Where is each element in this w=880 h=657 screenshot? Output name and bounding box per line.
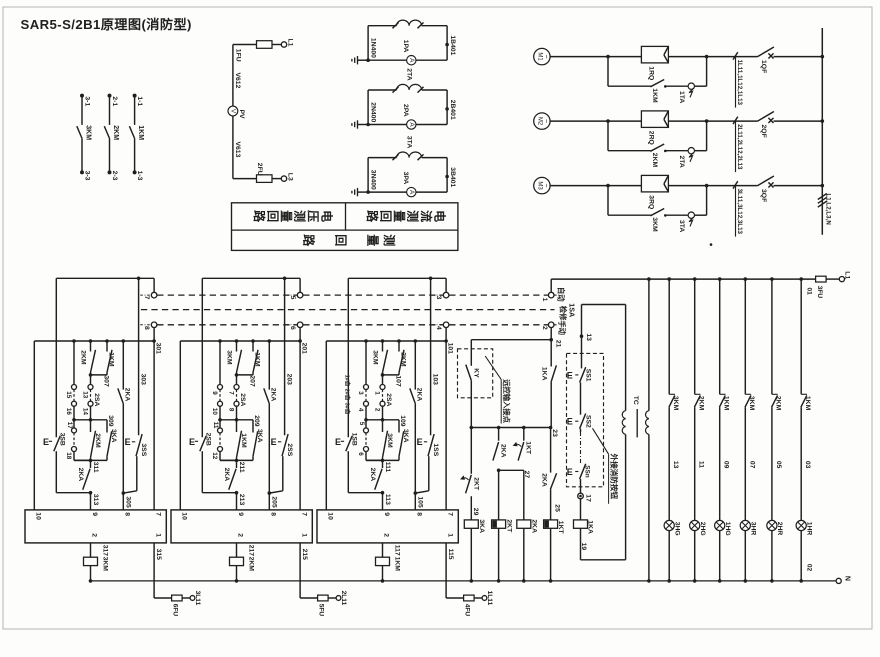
- svg-text:14: 14: [82, 408, 89, 416]
- selector 1SA terminal 1 (auto): [541, 287, 566, 302]
- svg-text:SS1: SS1: [585, 369, 592, 382]
- svg-text:自动: 自动: [557, 287, 566, 302]
- switch 1KM with terminals 1-1/1-3: [129, 94, 144, 181]
- contact 3KM (self-hold): [383, 420, 393, 461]
- svg-text:PV: PV: [238, 110, 245, 120]
- node 13: [580, 305, 626, 342]
- svg-text:3TA: 3TA: [678, 220, 685, 232]
- svg-text:9: 9: [211, 391, 218, 395]
- svg-text:2KM: 2KM: [248, 557, 255, 572]
- switch 2KM with terminals 2-1/2-3: [104, 94, 119, 181]
- svg-text:203: 203: [286, 374, 293, 386]
- svg-text:213: 213: [238, 494, 245, 506]
- svg-text:3KA: 3KA: [478, 519, 485, 533]
- svg-text:15: 15: [65, 391, 72, 399]
- terminal L3: [272, 173, 293, 182]
- label 2TA: [405, 68, 412, 80]
- contact 3KM (interlock): [372, 341, 388, 375]
- svg-text:3KM: 3KM: [102, 557, 109, 572]
- svg-text:E: E: [567, 370, 573, 380]
- wire 201: [300, 328, 307, 355]
- svg-text:313: 313: [92, 494, 99, 506]
- selector 2SA terminals 13/14: [82, 375, 93, 422]
- terminal 3 (selector line): [432, 278, 449, 299]
- transformer TC primary: [622, 305, 625, 560]
- legend table: [232, 203, 458, 251]
- svg-text:02: 02: [806, 564, 813, 572]
- svg-text:压: 压: [306, 210, 320, 222]
- svg-text:3RQ: 3RQ: [647, 195, 654, 209]
- svg-text:2KM: 2KM: [400, 352, 407, 367]
- svg-text:1: 1: [374, 391, 381, 395]
- svg-text:1SA: 1SA: [568, 303, 577, 317]
- current transformer 1TA loop: [368, 20, 449, 60]
- svg-text:测: 测: [382, 234, 397, 246]
- svg-text:E: E: [417, 437, 423, 447]
- svg-text:11: 11: [212, 422, 219, 429]
- terminal 6 (selector line): [286, 322, 303, 330]
- aux contact 3KM (lamp 3HG): [669, 279, 679, 520]
- svg-text:E: E: [335, 437, 341, 447]
- svg-text:17: 17: [585, 494, 592, 502]
- svg-text:2HR: 2HR: [776, 522, 783, 536]
- svg-text:2: 2: [541, 326, 548, 330]
- svg-text:2KT: 2KT: [505, 519, 512, 533]
- svg-text:3KM: 3KM: [672, 396, 679, 411]
- contact 3KA (fire enable): [253, 420, 263, 461]
- terminal 5 (selector line): [286, 278, 303, 299]
- svg-text:2-3: 2-3: [111, 171, 118, 181]
- svg-text:量: 量: [366, 234, 380, 246]
- node 309: [74, 415, 114, 427]
- bypass contactor 3KM: [608, 186, 688, 232]
- wire to pin 7: [445, 341, 447, 510]
- svg-text:2: 2: [374, 408, 381, 412]
- svg-text:1TA: 1TA: [678, 91, 685, 103]
- svg-text:2KA: 2KA: [499, 444, 506, 458]
- svg-text:2RQ: 2RQ: [647, 131, 654, 145]
- current transformer 1TA: [678, 57, 707, 104]
- svg-text:10: 10: [327, 512, 334, 520]
- contactor coil 1KM: [376, 543, 401, 583]
- svg-text:1L11,1L12,1L13: 1L11,1L12,1L13: [736, 60, 743, 106]
- svg-text:2KA: 2KA: [416, 388, 423, 402]
- svg-text:L1: L1: [844, 271, 851, 279]
- contact 2KA (to 1KT coil): [540, 428, 560, 520]
- aux contact 3KM (lamp 3HR): [745, 279, 755, 520]
- wire to pin 10: [33, 341, 35, 510]
- svg-text:2KA: 2KA: [369, 468, 376, 482]
- svg-text:10: 10: [35, 512, 42, 520]
- svg-text:2SA: 2SA: [385, 393, 392, 406]
- svg-text:1RQ: 1RQ: [647, 66, 654, 80]
- svg-text:25: 25: [554, 504, 561, 512]
- svg-text:3KA: 3KA: [110, 429, 117, 443]
- svg-text:7: 7: [446, 512, 453, 516]
- contactor coil 3KM: [84, 543, 109, 583]
- svg-text:3L11,3L12,3L13: 3L11,3L12,3L13: [736, 189, 743, 235]
- svg-text:1: 1: [541, 298, 548, 302]
- svg-text:105: 105: [417, 496, 424, 508]
- wire 13: [672, 461, 679, 469]
- fire button SS1: [567, 336, 592, 415]
- svg-text:外接消防按钮: 外接消防按钮: [609, 454, 619, 500]
- wire 09: [723, 461, 730, 469]
- svg-text:109: 109: [399, 415, 406, 427]
- svg-text:4: 4: [435, 326, 442, 330]
- svg-text:2KA: 2KA: [540, 473, 547, 487]
- wire motor M3 to soft starter: [550, 184, 641, 188]
- remote contact box KY: [458, 340, 493, 428]
- indicator lamp 1HG: [715, 520, 731, 582]
- svg-text:1HR: 1HR: [806, 522, 813, 536]
- svg-text:3N400: 3N400: [369, 170, 376, 190]
- relay coil 1KA: [574, 499, 594, 560]
- svg-text:13: 13: [672, 461, 679, 469]
- contact 2KA (lower): [77, 460, 91, 489]
- svg-text:2KM: 2KM: [651, 153, 658, 168]
- svg-text:8: 8: [228, 408, 235, 412]
- svg-text:307: 307: [102, 375, 109, 387]
- wire 315 / fuse 6FU / terminal 3L11: [154, 543, 201, 616]
- svg-text:2KA: 2KA: [124, 388, 131, 402]
- svg-text:流: 流: [419, 210, 434, 222]
- label external fire button: [593, 428, 620, 504]
- svg-text:1: 1: [154, 533, 161, 537]
- plug terminals 17/18: [65, 420, 90, 461]
- svg-text:2: 2: [383, 533, 390, 537]
- relay coil 1KT: [544, 520, 564, 583]
- svg-text:17: 17: [66, 422, 73, 430]
- wire terminal1 to top rail: [550, 279, 552, 292]
- svg-text:1KM: 1KM: [240, 433, 247, 448]
- plug terminals 5/6: [357, 420, 382, 461]
- node 213: [235, 491, 246, 510]
- svg-text:2KM: 2KM: [80, 350, 87, 365]
- current transformer 3TA: [678, 186, 707, 233]
- svg-text:V612: V612: [234, 73, 241, 89]
- ammeter 2PA: [368, 104, 447, 129]
- node 211: [220, 459, 253, 473]
- wire 301: [154, 328, 161, 355]
- svg-text:1KT: 1KT: [557, 521, 564, 535]
- svg-text:11: 11: [698, 461, 705, 468]
- node 209: [220, 415, 260, 427]
- svg-text:3KM: 3KM: [226, 350, 233, 365]
- svg-text:量: 量: [279, 210, 293, 222]
- wire label 1L11,1L12,1L13: [736, 57, 743, 108]
- svg-text:1KA: 1KA: [587, 520, 594, 534]
- soft starter control box (block 3KM): [25, 510, 166, 543]
- contactor coil 2KM: [230, 543, 255, 583]
- svg-text:1KM: 1KM: [394, 557, 401, 572]
- svg-text:23: 23: [551, 429, 558, 437]
- contact 2KA (lower): [369, 460, 383, 489]
- current transformer 3TA loop: [368, 152, 449, 192]
- indicator lamp 3HG: [664, 520, 680, 582]
- svg-text:检修: 检修: [559, 306, 568, 321]
- wire 1RQ output: [668, 55, 708, 59]
- circuit breaker 2QF: [707, 112, 825, 138]
- main bus L1,L2,L3,N: [818, 28, 832, 235]
- svg-text:路: 路: [365, 210, 380, 223]
- ammeter 1PA: [368, 40, 447, 65]
- terminal N: [806, 564, 851, 584]
- svg-text:手动: 手动: [557, 320, 566, 335]
- wire 2RQ output: [668, 119, 708, 123]
- svg-text:309: 309: [107, 415, 114, 427]
- soft starter 1RQ: [641, 46, 668, 80]
- svg-text:2KA: 2KA: [530, 519, 537, 533]
- node 313: [89, 491, 100, 510]
- svg-text:2KA: 2KA: [270, 388, 277, 402]
- svg-text:回: 回: [334, 234, 348, 246]
- svg-text:7: 7: [143, 296, 150, 300]
- svg-text:1HG: 1HG: [724, 522, 731, 536]
- svg-text:2-1: 2-1: [111, 96, 118, 106]
- motor M3: [534, 177, 550, 193]
- node 311: [74, 459, 107, 473]
- svg-text:5: 5: [358, 422, 365, 426]
- node 107: [381, 373, 402, 387]
- node 307: [89, 373, 110, 387]
- svg-text:2KA: 2KA: [77, 468, 84, 482]
- svg-text:2: 2: [237, 533, 244, 537]
- svg-text:2SA: 2SA: [93, 393, 100, 406]
- svg-text:1KM: 1KM: [651, 88, 658, 103]
- svg-text:2L11,2L12,2L13: 2L11,2L12,2L13: [736, 124, 743, 170]
- svg-text:09: 09: [723, 461, 730, 469]
- svg-text:3: 3: [357, 391, 364, 395]
- selector label 2SA: [239, 393, 246, 406]
- svg-text:8: 8: [270, 512, 277, 516]
- wire rail 2: [326, 339, 448, 343]
- pushbutton 2SB: [189, 278, 237, 492]
- svg-text:3-3: 3-3: [83, 171, 90, 181]
- fuse 1FU: [235, 41, 282, 62]
- wire 103 and stop button 1SS: [415, 278, 439, 493]
- svg-text:TC: TC: [632, 396, 639, 405]
- fire button SS2: [567, 414, 592, 433]
- terminal 17: [578, 493, 592, 502]
- svg-text:3KA: 3KA: [402, 429, 409, 443]
- svg-text:3PA: 3PA: [402, 172, 409, 185]
- wire rail 2: [180, 339, 302, 343]
- node 207: [235, 373, 256, 387]
- soft starter 3RQ: [641, 175, 668, 209]
- node 111: [366, 459, 399, 473]
- svg-text:13: 13: [585, 333, 592, 341]
- wire 101: [446, 328, 453, 355]
- wire 3RQ output: [668, 184, 708, 188]
- wire rail 2: [34, 339, 156, 343]
- svg-text:1B401: 1B401: [449, 35, 456, 55]
- svg-text:207: 207: [248, 375, 255, 387]
- svg-text:1KM: 1KM: [137, 125, 144, 140]
- svg-text:211: 211: [238, 462, 245, 473]
- wire V613: [233, 116, 241, 179]
- selector 2SA terminals 7/8: [228, 375, 239, 422]
- svg-text:路: 路: [252, 210, 267, 223]
- wire to pin 10: [325, 341, 327, 510]
- transformer TC secondary: [646, 279, 651, 583]
- svg-text:103: 103: [432, 374, 439, 386]
- svg-text:SAR5-S/2B1原理图(消防型): SAR5-S/2B1原理图(消防型): [21, 16, 192, 32]
- svg-text:10: 10: [181, 512, 188, 520]
- svg-text:2TA: 2TA: [678, 156, 685, 168]
- contact 2KM (interlock): [80, 341, 96, 375]
- fuse 2FU: [233, 163, 272, 183]
- svg-text:SS2: SS2: [585, 415, 592, 428]
- svg-text:M3: M3: [537, 181, 543, 190]
- delayed contact 2KT: [460, 428, 479, 520]
- svg-text:2KT: 2KT: [472, 477, 479, 491]
- wire to pin 7: [299, 341, 301, 510]
- svg-text:回: 回: [266, 210, 280, 222]
- svg-text:29: 29: [472, 508, 479, 516]
- label 1SA: [568, 303, 577, 317]
- voltmeter PV: [228, 106, 245, 119]
- svg-text:111: 111: [384, 462, 391, 473]
- svg-text:8: 8: [143, 326, 150, 330]
- delayed contact 1KT: [513, 428, 532, 461]
- current transformer 2TA: [678, 121, 707, 168]
- svg-text:2HG: 2HG: [699, 522, 706, 536]
- svg-text:01: 01: [806, 288, 813, 296]
- svg-text:L3: L3: [286, 173, 293, 181]
- svg-text:SSn: SSn: [584, 465, 591, 478]
- wire 03: [804, 461, 811, 469]
- ammeter 3PA: [368, 172, 447, 197]
- ground: [352, 120, 370, 128]
- svg-text:3-1: 3-1: [83, 96, 90, 106]
- svg-text:1-1: 1-1: [136, 96, 143, 106]
- svg-text:M1: M1: [537, 52, 543, 61]
- svg-text:E: E: [271, 437, 277, 447]
- contact 2KA (lower): [223, 460, 237, 489]
- svg-text:5: 5: [289, 296, 296, 300]
- svg-text:3KM: 3KM: [748, 396, 755, 411]
- pushbutton 1SB: [335, 278, 383, 492]
- relay coil 3KA: [464, 508, 485, 583]
- svg-text:2KA: 2KA: [223, 468, 230, 482]
- svg-text:13: 13: [82, 391, 89, 399]
- svg-text:107: 107: [394, 375, 401, 387]
- svg-text:2SB: 2SB: [205, 433, 212, 446]
- svg-text:301: 301: [155, 343, 162, 355]
- selector position labels 1#/2#/3# (block 1KM): [344, 375, 352, 415]
- relay coil 2KT: [492, 470, 513, 582]
- svg-text:205: 205: [271, 496, 278, 508]
- wire 07: [748, 461, 755, 469]
- title SAR5-S/2B1: [21, 16, 192, 32]
- node 27: [499, 470, 530, 478]
- selector 2SA terminals 15/16: [65, 341, 76, 422]
- svg-text:1SS: 1SS: [432, 443, 439, 456]
- transformer TC core: [632, 396, 639, 438]
- svg-text:12: 12: [211, 452, 218, 460]
- svg-text:电: 电: [433, 210, 448, 222]
- wire top rail (block 2KM): [202, 277, 300, 281]
- svg-text:远控输入接点: 远控输入接点: [502, 379, 511, 423]
- svg-text:E: E: [567, 467, 573, 477]
- svg-text:2SA: 2SA: [239, 393, 246, 406]
- wire 11: [698, 461, 705, 468]
- svg-text:1: 1: [446, 533, 453, 537]
- svg-text:7: 7: [300, 512, 307, 516]
- svg-text:117: 117: [394, 545, 401, 556]
- svg-text:315: 315: [155, 549, 162, 561]
- label remote input contact: [485, 356, 511, 424]
- svg-text:2TA: 2TA: [405, 68, 412, 80]
- wire to pin 10: [179, 341, 181, 510]
- svg-text:07: 07: [748, 461, 755, 469]
- svg-text:3L11: 3L11: [194, 591, 201, 606]
- svg-text:电: 电: [320, 210, 335, 222]
- svg-text:2KM: 2KM: [775, 396, 782, 411]
- svg-text:1KT: 1KT: [525, 441, 532, 455]
- wire 215 / fuse 5FU / terminal 2L11: [300, 543, 347, 616]
- contact 2KM (self-hold): [91, 420, 101, 461]
- svg-text:6: 6: [289, 326, 296, 330]
- wire label 2B401: [449, 100, 456, 120]
- svg-text:3KA: 3KA: [256, 429, 263, 443]
- contact 2KA (upper, manual): [264, 341, 278, 510]
- svg-text:311: 311: [92, 462, 99, 473]
- svg-text:18: 18: [65, 452, 72, 460]
- dashed selector line (auto): [157, 294, 548, 296]
- chain dash-dot SS2..SSn: [580, 432, 582, 464]
- indicator lamp 3HR: [740, 520, 756, 582]
- svg-text:215: 215: [301, 549, 308, 561]
- contact 1KM (self-hold): [237, 420, 247, 461]
- contact 1KM (interlock): [107, 341, 115, 375]
- svg-text:2KM: 2KM: [94, 433, 101, 448]
- ground: [352, 56, 370, 64]
- circuit breaker 1QF: [707, 47, 825, 73]
- junction dot: [710, 243, 713, 246]
- svg-text:1N400: 1N400: [369, 38, 376, 58]
- terminal 4 (selector line): [432, 322, 449, 330]
- aux contact 2KM (lamp 2HG): [694, 279, 704, 520]
- svg-text:10: 10: [211, 408, 218, 416]
- terminal 7 (selector line): [140, 278, 157, 299]
- svg-text:201: 201: [301, 343, 308, 355]
- svg-text:1KA: 1KA: [541, 367, 548, 381]
- svg-text:2L11: 2L11: [340, 591, 347, 606]
- bottom rail (neutral): [91, 580, 836, 582]
- svg-text:E: E: [43, 437, 49, 447]
- svg-text:305: 305: [125, 496, 132, 508]
- svg-text:~: ~: [542, 119, 549, 123]
- svg-text:V613: V613: [234, 142, 241, 158]
- selector label 2SA: [385, 393, 392, 406]
- selector 2SA terminals 9/10: [211, 341, 222, 422]
- svg-text:L1,L2,L3,N: L1,L2,L3,N: [824, 194, 831, 226]
- svg-text:3HG: 3HG: [674, 522, 681, 536]
- svg-text:2PA: 2PA: [402, 104, 409, 117]
- svg-text:9: 9: [237, 512, 244, 516]
- svg-text:9: 9: [91, 512, 98, 516]
- svg-text:~: ~: [542, 55, 549, 59]
- wire label 3B401: [449, 167, 456, 187]
- bypass contactor 1KM: [608, 57, 688, 103]
- svg-text:16: 16: [65, 408, 72, 416]
- svg-text:1SB: 1SB: [351, 433, 358, 446]
- control top rail to 3FU: [551, 277, 815, 281]
- svg-text:3: 3: [435, 296, 442, 300]
- svg-text:3B401: 3B401: [449, 167, 456, 187]
